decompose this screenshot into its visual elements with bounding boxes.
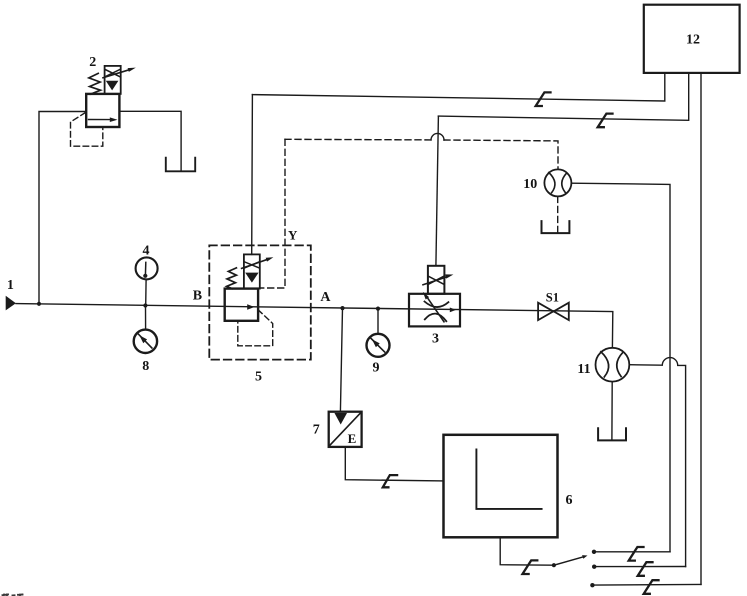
wire: box 12 output down right side xyxy=(700,73,702,585)
svg-text:6: 6 xyxy=(566,493,573,508)
valve 2 spring xyxy=(89,73,101,94)
node: junction to gauge 9 xyxy=(376,307,380,311)
valve 3 solenoid X xyxy=(429,276,444,284)
valve 5 spring xyxy=(227,268,237,289)
transducer 7 input triangle xyxy=(334,413,347,425)
valve 2 cartridge X xyxy=(105,70,119,77)
wire: recorder 6 to selector switch xyxy=(500,537,554,565)
svg-text:B: B xyxy=(193,288,202,303)
clipped caption fragment bottom left xyxy=(3,594,23,596)
contact 2 xyxy=(592,565,596,569)
valve 2 pilot cartridge xyxy=(105,66,121,94)
svg-text:1: 1 xyxy=(7,278,14,293)
thermometer 4 xyxy=(145,279,147,305)
contact 3 xyxy=(590,583,594,587)
svg-text:Y: Y xyxy=(288,228,298,243)
transducer 7 box xyxy=(329,412,362,447)
tank under flow meter 10 xyxy=(542,221,570,233)
wire: main pressure line P xyxy=(16,304,613,348)
selector switch pivot xyxy=(552,563,556,567)
source arrow 1 xyxy=(6,296,16,311)
valve 5 pilot dashed loop xyxy=(238,310,273,346)
dashed drain from flow meter 10 to tank xyxy=(557,196,559,232)
recorder box 6 xyxy=(444,435,558,538)
svg-text:4: 4 xyxy=(143,243,150,258)
signal tick on valve 5 command line xyxy=(536,92,551,106)
svg-text:11: 11 xyxy=(577,362,590,377)
wire: valve 2 to tank xyxy=(119,111,181,170)
signal tick contact 2 xyxy=(638,562,653,576)
svg-text:A: A xyxy=(320,290,331,305)
signal tick on transducer line xyxy=(383,475,397,487)
wire: flow meter 11 signal with crossover hop xyxy=(629,358,685,567)
pilot dashed line to flow meter 10 xyxy=(285,139,558,169)
wire: contact 2 line xyxy=(596,566,685,568)
signal tick on valve 3 command line xyxy=(598,114,613,128)
svg-text:8: 8 xyxy=(142,359,149,374)
wire: flow meter 11 to tank xyxy=(611,382,613,440)
svg-text:2: 2 xyxy=(89,55,96,70)
svg-text:3: 3 xyxy=(432,332,439,347)
node: junction to transducer 7 xyxy=(340,306,344,310)
wire: transducer 7 to recorder 6 xyxy=(345,447,443,481)
selector switch arm xyxy=(554,557,583,565)
valve 5 main body xyxy=(225,289,258,321)
signal tick on recorder line xyxy=(523,560,538,574)
flow meter 10 xyxy=(544,169,571,196)
controller box 12 xyxy=(644,5,740,73)
transducer 7 diagonal xyxy=(330,413,361,446)
wire: solenoid command line down to valve 5 xyxy=(251,95,254,255)
valve 5 adjustment arrow xyxy=(242,260,267,269)
wire: box 12 output to valve 5 xyxy=(252,73,664,101)
svg-text:10: 10 xyxy=(523,177,537,192)
valve 3 solenoid arrow xyxy=(423,277,447,285)
wire: contact 1 line xyxy=(596,551,670,553)
wire: solenoid command line down to valve 3 xyxy=(436,116,439,266)
valve 5 cartridge poppet triangle xyxy=(245,273,258,283)
wire: down to gauge 8 xyxy=(145,306,147,330)
valve 2 pilot dashed line xyxy=(71,113,103,147)
recorder 6 axes xyxy=(476,449,541,509)
svg-text:9: 9 xyxy=(373,361,380,376)
pilot port Y dashed line xyxy=(260,139,285,288)
crossover hop on pilot line xyxy=(431,133,444,140)
signal tick contact 1 xyxy=(629,547,644,561)
tank under flow meter 11 xyxy=(598,428,626,440)
valve 3 body xyxy=(409,294,460,327)
pressure gauge 8 xyxy=(134,330,157,353)
wire: contact 3 line xyxy=(595,583,701,586)
relief valve 2 body xyxy=(86,94,119,127)
tank under valve 2 xyxy=(166,158,195,172)
signal tick contact 3 xyxy=(644,580,659,594)
wire: box 12 output to valve 3 xyxy=(438,73,688,120)
valve 2 cartridge poppet triangle xyxy=(106,81,119,91)
valve 3 adjustment arrow xyxy=(428,298,445,322)
wire: branch up to relief valve 2 xyxy=(39,112,86,304)
valve 3 throttle arcs xyxy=(425,302,449,308)
throttle valve 3 solenoid xyxy=(428,266,445,294)
valve 5 pilot cartridge xyxy=(244,254,260,288)
shutoff valve S1 xyxy=(538,303,553,320)
svg-text:7: 7 xyxy=(313,423,320,438)
wire: down to gauge 9 xyxy=(377,309,379,334)
svg-text:E: E xyxy=(348,431,357,446)
svg-text:S1: S1 xyxy=(546,290,559,304)
flow meter 11 xyxy=(596,348,630,382)
proportional pilot valve 5 dashed enclosure xyxy=(209,245,310,359)
contact 1 xyxy=(592,550,596,554)
pressure gauge 9 xyxy=(367,334,390,357)
svg-text:12: 12 xyxy=(686,32,700,47)
valve 3 flow arrowhead xyxy=(450,308,456,313)
node: gauge junction xyxy=(143,303,147,307)
svg-text:5: 5 xyxy=(255,369,262,384)
valve 5 internal flow arrowhead xyxy=(247,304,254,310)
valve 5 cartridge X xyxy=(245,262,260,268)
node: junction to valve 2 xyxy=(37,302,41,306)
valve 2 adjustment arrow xyxy=(103,70,129,78)
transducer 7 input wire xyxy=(340,308,342,412)
wire: flow meter 10 signal line xyxy=(571,183,670,552)
valve 2 internal flow arrow xyxy=(89,119,111,121)
